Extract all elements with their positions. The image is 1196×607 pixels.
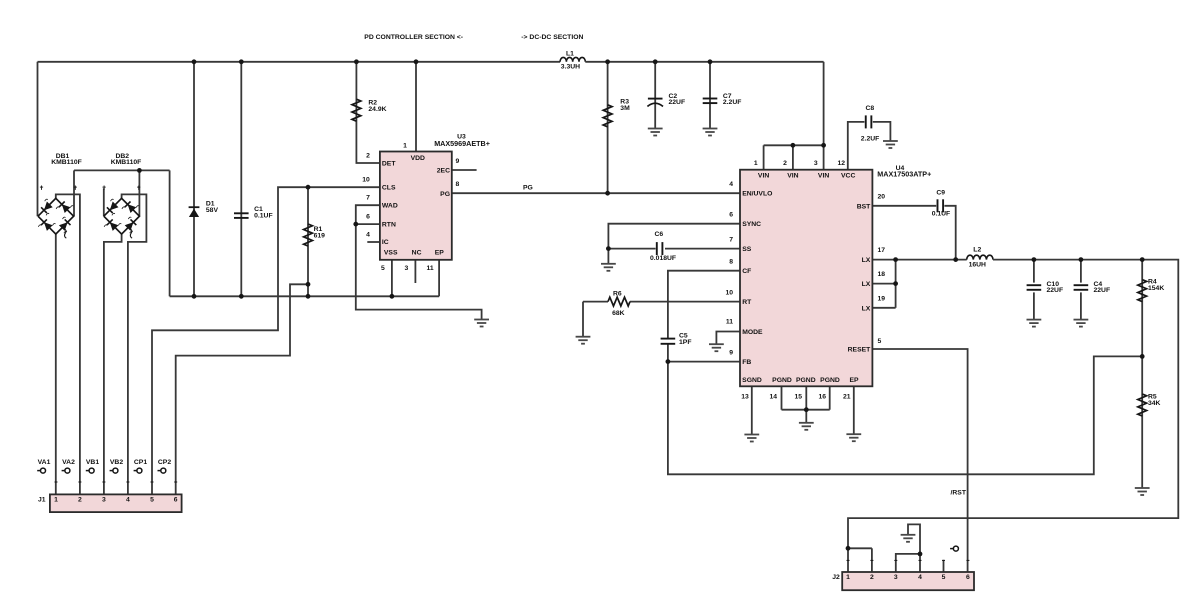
svg-text:619: 619 — [314, 232, 326, 239]
svg-text:13: 13 — [741, 394, 749, 401]
svg-text:CP1: CP1 — [134, 459, 147, 466]
svg-text:2: 2 — [783, 160, 787, 167]
svg-text:4: 4 — [729, 181, 733, 188]
svg-text:12: 12 — [837, 160, 845, 167]
svg-text:PGND: PGND — [796, 377, 816, 384]
svg-text:NC: NC — [412, 250, 422, 257]
svg-text:16: 16 — [818, 394, 826, 401]
svg-text:21: 21 — [843, 394, 851, 401]
svg-text:VIN: VIN — [758, 172, 769, 179]
svg-text:C9: C9 — [936, 190, 945, 197]
svg-text:2.2UF: 2.2UF — [861, 135, 880, 142]
svg-text:68K: 68K — [612, 310, 625, 317]
svg-text:6: 6 — [366, 214, 370, 221]
svg-text:19: 19 — [878, 295, 886, 302]
svg-text:5: 5 — [942, 574, 946, 581]
svg-text:24.9K: 24.9K — [368, 106, 386, 113]
svg-text:22UF: 22UF — [1047, 287, 1064, 294]
svg-text:11: 11 — [427, 265, 434, 272]
svg-text:J2: J2 — [832, 574, 840, 581]
svg-text:2EC: 2EC — [437, 168, 450, 175]
svg-text:5: 5 — [150, 496, 154, 503]
svg-text:C6: C6 — [655, 231, 664, 238]
svg-text:20: 20 — [878, 193, 886, 200]
svg-text:0.018UF: 0.018UF — [650, 255, 676, 262]
svg-text:VSS: VSS — [384, 250, 398, 257]
svg-text:LX: LX — [862, 281, 871, 288]
svg-text:CLS: CLS — [382, 185, 396, 192]
svg-text:R6: R6 — [613, 290, 622, 297]
svg-text:PD CONTROLLER SECTION <-: PD CONTROLLER SECTION <- — [364, 34, 463, 41]
svg-text:PG: PG — [440, 191, 450, 198]
svg-text:J1: J1 — [38, 496, 46, 503]
svg-text:7: 7 — [729, 237, 733, 244]
svg-text:L1: L1 — [566, 51, 574, 58]
svg-text:3.3UH: 3.3UH — [561, 63, 580, 70]
svg-text:5: 5 — [878, 338, 882, 345]
svg-text:7: 7 — [366, 195, 370, 202]
svg-text:EP: EP — [435, 250, 445, 257]
svg-text:IC: IC — [382, 239, 389, 246]
svg-text:22UF: 22UF — [669, 99, 686, 106]
svg-text:5: 5 — [381, 265, 385, 272]
svg-text:4: 4 — [366, 232, 370, 239]
svg-text:VB2: VB2 — [110, 459, 123, 466]
svg-text:1: 1 — [403, 142, 407, 149]
svg-text:3: 3 — [405, 265, 409, 272]
svg-text:SYNC: SYNC — [742, 221, 761, 228]
svg-text:17: 17 — [878, 247, 886, 254]
svg-text:EP: EP — [849, 377, 859, 384]
svg-text:PG: PG — [523, 185, 533, 192]
svg-text:EN/UVLO: EN/UVLO — [742, 191, 772, 198]
svg-text:LX: LX — [862, 305, 871, 312]
svg-text:0.1UF: 0.1UF — [254, 213, 273, 220]
svg-text:9: 9 — [456, 158, 460, 165]
svg-text:VA1: VA1 — [38, 459, 51, 466]
svg-text:4: 4 — [918, 574, 922, 581]
svg-text:6: 6 — [966, 574, 970, 581]
svg-text:11: 11 — [726, 319, 733, 326]
svg-text:RT: RT — [742, 299, 752, 306]
svg-text:6: 6 — [174, 496, 178, 503]
svg-text:PGND: PGND — [820, 377, 840, 384]
svg-text:BST: BST — [857, 203, 871, 210]
svg-text:LX: LX — [862, 257, 871, 264]
svg-text:VB1: VB1 — [86, 459, 99, 466]
svg-text:2: 2 — [870, 574, 874, 581]
svg-text:MAX17503ATP+: MAX17503ATP+ — [877, 169, 931, 178]
svg-text:L2: L2 — [973, 247, 981, 254]
svg-text:34K: 34K — [1148, 400, 1161, 407]
svg-text:-> DC-DC SECTION: -> DC-DC SECTION — [521, 34, 583, 41]
svg-text:9: 9 — [729, 350, 733, 357]
svg-text:16UH: 16UH — [969, 261, 986, 268]
svg-text:22UF: 22UF — [1094, 287, 1111, 294]
svg-text:FB: FB — [742, 359, 751, 366]
svg-text:VIN: VIN — [818, 172, 829, 179]
svg-text:PGND: PGND — [772, 377, 792, 384]
svg-text:2.2UF: 2.2UF — [723, 99, 742, 106]
svg-text:18: 18 — [878, 271, 886, 278]
svg-text:MODE: MODE — [742, 329, 763, 336]
svg-text:3: 3 — [814, 160, 818, 167]
svg-text:3: 3 — [102, 496, 106, 503]
svg-text:2: 2 — [366, 153, 370, 160]
svg-text:14: 14 — [769, 394, 777, 401]
svg-text:MAX5969AETB+: MAX5969AETB+ — [434, 139, 490, 148]
svg-text:VA2: VA2 — [62, 459, 75, 466]
svg-text:RESET: RESET — [848, 347, 872, 354]
svg-text:8: 8 — [456, 181, 460, 188]
svg-text:8: 8 — [729, 259, 733, 266]
svg-text:1: 1 — [754, 160, 758, 167]
svg-text:2: 2 — [78, 496, 82, 503]
svg-text:CP2: CP2 — [158, 459, 171, 466]
svg-text:SGND: SGND — [742, 377, 762, 384]
svg-text:6: 6 — [729, 212, 733, 219]
svg-text:C8: C8 — [866, 105, 875, 112]
svg-text:0.1UF: 0.1UF — [932, 211, 951, 218]
svg-text:VDD: VDD — [411, 155, 425, 162]
svg-text:KMB110F: KMB110F — [111, 159, 142, 166]
svg-text:WAD: WAD — [382, 203, 398, 210]
svg-text:CF: CF — [742, 268, 751, 275]
svg-text:3M: 3M — [620, 105, 630, 112]
svg-text:SS: SS — [742, 246, 752, 253]
svg-text:DET: DET — [382, 161, 396, 168]
svg-text:10: 10 — [725, 290, 733, 297]
svg-text:1: 1 — [54, 496, 58, 503]
svg-text:15: 15 — [794, 394, 802, 401]
svg-text:154K: 154K — [1148, 285, 1164, 292]
svg-text:VCC: VCC — [841, 172, 855, 179]
svg-text:3: 3 — [894, 574, 898, 581]
svg-text:KMB110F: KMB110F — [51, 159, 82, 166]
svg-text:1PF: 1PF — [679, 339, 691, 346]
svg-text:10: 10 — [362, 177, 370, 184]
svg-text:RTN: RTN — [382, 222, 396, 229]
svg-text:VIN: VIN — [787, 172, 798, 179]
svg-text:1: 1 — [846, 574, 850, 581]
svg-text:58V: 58V — [206, 207, 219, 214]
svg-text:4: 4 — [126, 496, 130, 503]
svg-text:/RST: /RST — [951, 490, 967, 497]
